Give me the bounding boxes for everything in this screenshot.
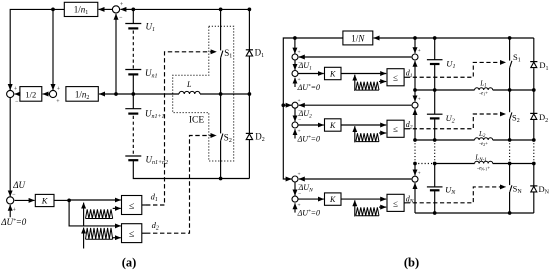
wire: K output to PWM branch node: [54, 199, 69, 201]
module rail 2 with inductor L2: [415, 139, 475, 141]
block 1/2 averaging box: [20, 87, 42, 102]
op: junction CN: [412, 176, 418, 182]
battery U1 (b): [434, 38, 436, 60]
inductor L: [179, 91, 200, 94]
wire: mid sense line into 1/n2 box: [99, 93, 116, 95]
wire: battery top node into summing junction A: [120, 8, 133, 10]
wire: top rail sense into 1/N box: [374, 37, 415, 39]
battery cell Un1: [125, 69, 141, 71]
wire: module 1 voltage into B1: [299, 56, 412, 58]
op: summing B2p (with reference zero): [292, 122, 298, 128]
diode D2 (b): [533, 90, 535, 113]
comparator box row N: [387, 194, 404, 211]
svg-text:+: +: [297, 50, 300, 56]
svg-text:K: K: [329, 70, 336, 79]
svg-text:-eN-1+: -eN-1+: [477, 166, 490, 171]
wire: dotted D-leg continuation: [533, 140, 535, 164]
node: S-leg bottom: [219, 177, 223, 181]
svg-text:(a): (a): [122, 256, 137, 270]
node: battery stack top: [131, 8, 135, 12]
diode DN (b): [533, 164, 535, 186]
wire: summing junction 2 output into 1/2 box: [43, 93, 50, 95]
op: summing B1 (reference compare): [292, 54, 298, 60]
svg-text:-e2+: -e2+: [479, 142, 488, 147]
wire: K row 2 output to comparator: [341, 124, 386, 126]
block 1/N box: [343, 31, 373, 45]
svg-text:1/N: 1/N: [351, 33, 365, 43]
op: summing BNp (with reference zero): [292, 196, 298, 202]
op: summing junction A (top): [112, 6, 119, 13]
wire: K row N output to comparator: [341, 198, 386, 200]
wire: dotted battery continuation (b): [434, 140, 436, 164]
svg-text:≤: ≤: [393, 124, 398, 134]
svg-text:(b): (b): [404, 256, 419, 270]
node: 1/N output branch to module 1: [293, 36, 297, 40]
control line d1 (dashed) to S1: [404, 76, 406, 78]
node: D-leg mid: [248, 92, 252, 96]
svg-text:K: K: [329, 121, 336, 130]
wire: K row 1 output to comparator: [341, 73, 386, 75]
svg-text:+: +: [418, 48, 421, 54]
wire: dU*=0 reference into B1p: [294, 78, 296, 87]
control line d1 (dashed) to S1: [142, 204, 146, 206]
battery cell U1: [125, 23, 141, 25]
wire: battery bottom to bottom rail: [133, 160, 249, 178]
svg-text:≤: ≤: [129, 229, 135, 240]
svg-text:≤: ≤: [393, 198, 398, 208]
op: junction C2: [412, 102, 418, 108]
svg-text:-e1+: -e1+: [479, 92, 488, 97]
block K gain box row 1: [298, 73, 324, 75]
bottom rail (b): [415, 212, 534, 214]
wire: dashed battery continuation: [132, 31, 134, 70]
module rail 3 with inductor LN-1: [415, 163, 435, 165]
control line d2 (dashed) to S2: [404, 128, 406, 130]
svg-text:ICE: ICE: [189, 116, 205, 126]
diode D1 leg (upper): [248, 9, 250, 49]
carrier sawtooth 1: [83, 203, 85, 226]
wire: rail2 up into C2: [414, 109, 416, 140]
wire: branch into summing B2: [283, 104, 291, 106]
svg-text:≤: ≤: [129, 201, 135, 212]
wire: B2 output down to B2p: [294, 108, 296, 121]
wire: module 2 voltage into B2: [299, 104, 412, 106]
svg-text:+: +: [418, 170, 421, 176]
op: summing BN (reference compare): [292, 176, 298, 182]
wire: battery link through mid node: [132, 74, 134, 108]
wire: dU*=0 reference into B2p: [294, 129, 296, 138]
wire: dashed battery continuation 2: [132, 116, 134, 156]
wire: BN output down to BNp: [294, 182, 296, 196]
switch S2 leg (lower): [220, 94, 222, 133]
module rail 1 with inductor L1: [415, 89, 475, 91]
switch S1 (b): [509, 38, 511, 61]
wire: dU feedback from summing node 1: [9, 98, 11, 197]
battery UN (b): [434, 164, 436, 187]
node: S-leg mid: [219, 92, 223, 96]
wire: bottom rail up into CN: [414, 183, 416, 213]
wire: drop into summing B1: [294, 38, 296, 54]
wire: (b) top power rail: [415, 37, 534, 39]
wire: dU*=0 reference into BNp: [294, 203, 296, 212]
carrier sawtooth row 1: [354, 75, 356, 91]
block 1/n2 gain box: [66, 87, 98, 102]
wire: mid-node sense riser into summing junction A (minus input): [115, 14, 117, 94]
node: (a) branch node on 1/n1 output line: [51, 8, 55, 12]
diode D1 (b): [533, 38, 535, 62]
comparator 2 box: [122, 224, 142, 243]
control line d2 (dashed) to S2: [142, 232, 146, 234]
svg-text:+: +: [13, 208, 17, 214]
svg-text:≤: ≤: [393, 73, 398, 83]
block K gain box: [15, 199, 35, 201]
battery cell Un1+1: [125, 108, 141, 110]
wire: rail3 down into CN: [414, 164, 416, 176]
op: summing B2 (reference compare): [292, 102, 298, 108]
wire: dotted S-leg continuation: [509, 140, 511, 164]
svg-text:1/2: 1/2: [25, 89, 36, 99]
svg-text:+: +: [418, 96, 421, 102]
svg-text:+: +: [57, 86, 61, 92]
comparator box row 2: [387, 120, 404, 137]
node: sense tap on mid rail: [114, 92, 118, 96]
carrier sawtooth row N: [354, 200, 356, 216]
wire: (a) top rail to switch and diode legs: [133, 8, 249, 10]
wire: summing junction A output into 1/n1 box: [99, 8, 112, 10]
svg-text:ΔU: ΔU: [12, 180, 25, 190]
svg-text:+: +: [297, 98, 300, 104]
svg-text:−: −: [298, 66, 301, 72]
wire: 1/2 output into summing junction 1: [15, 93, 20, 95]
svg-text:K: K: [329, 195, 336, 204]
battery stack top segment: [132, 9, 134, 23]
wire: 1/N output line to left column: [283, 38, 343, 179]
wire: reference dU*=0 input: [9, 205, 11, 217]
wire: B1 output down to B1p: [294, 60, 296, 70]
svg-text:L: L: [186, 80, 192, 89]
switch SN (b): [509, 164, 511, 186]
block K gain box row N: [298, 198, 324, 200]
svg-text:−: −: [298, 191, 301, 197]
diode D2 leg (lower): [248, 94, 250, 133]
block K gain box row 2: [298, 124, 324, 126]
wire: module N voltage into BN: [299, 178, 412, 180]
switch S2 (b): [509, 90, 511, 112]
battery U2 (b): [434, 90, 436, 114]
block 1/n1 gain box: [64, 2, 98, 16]
switch S1 leg (upper): [220, 9, 222, 50]
wire: top rail into C1: [414, 38, 416, 53]
op: junction C1: [412, 54, 418, 60]
node: S-leg top: [219, 8, 223, 12]
node: battery stack mid: [131, 92, 135, 96]
comparator box row 1: [387, 69, 404, 86]
wire: dotted sense continuation: [414, 140, 416, 164]
dotted ICE boundary: [173, 26, 234, 161]
wire: rail1 up into C1: [414, 61, 416, 90]
wire: branch to comparator 2: [69, 200, 121, 226]
wire: branch to comparator 1: [69, 199, 121, 201]
op: summing junction 1 (left): [7, 90, 14, 97]
op: summing junction 2: [49, 90, 56, 97]
control line dN (dashed) to SN: [404, 202, 406, 204]
node: D-leg top: [248, 8, 252, 12]
wire: (a) branch from node down into summing node 2: [52, 9, 54, 90]
wire: rail1 down into C2: [414, 90, 416, 101]
wire: (a) mid rail from battery mid node to switch/diode legs: [116, 93, 179, 95]
node: branch to module 2: [281, 103, 285, 107]
carrier sawtooth 2: [83, 228, 85, 249]
op: summing B1p (with reference zero): [292, 71, 298, 77]
battery cell Un1+n2: [125, 155, 141, 157]
wire: (a) top-left feedback wire from 1/n1 output down to summing node 1: [10, 9, 64, 90]
comparator 1 box: [122, 196, 142, 215]
carrier sawtooth row 2: [354, 126, 356, 142]
svg-text:+: +: [297, 172, 300, 178]
svg-text:−: −: [298, 117, 301, 123]
